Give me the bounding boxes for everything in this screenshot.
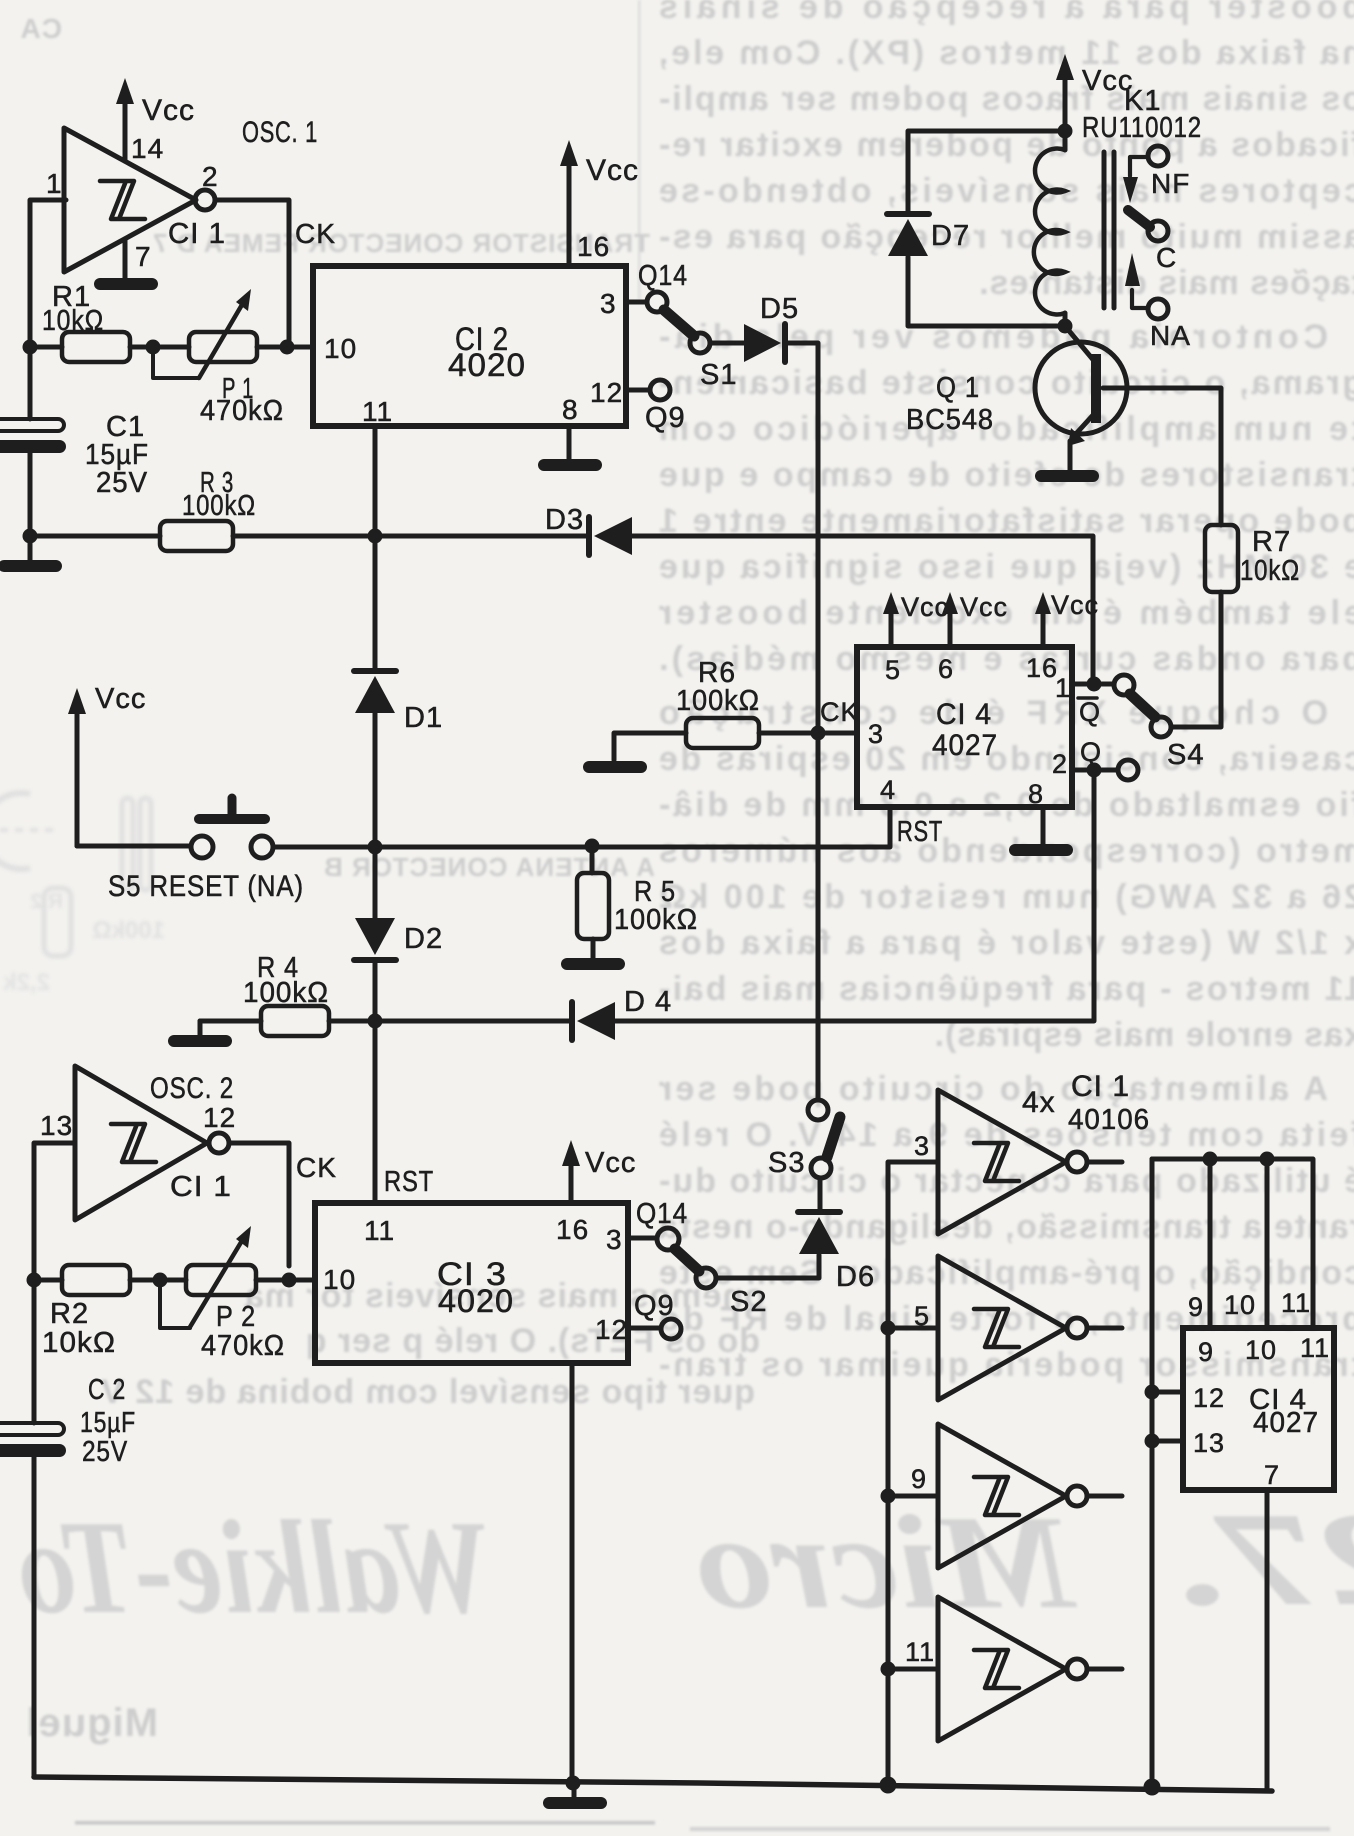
- node Q-bar CI4 pin 1: [1072, 675, 1134, 727]
- svg-text:CK: CK: [296, 1152, 337, 1183]
- node Q9 of CI2 pin 12: [626, 380, 686, 434]
- relay contact C with lever: [1128, 210, 1177, 273]
- power Vcc arrow for S5: [68, 683, 146, 846]
- svg-text:Q: Q: [1079, 697, 1101, 727]
- svg-text:CI 4: CI 4: [936, 698, 992, 731]
- svg-text:8: 8: [1028, 779, 1044, 809]
- switch S4: [1130, 694, 1204, 771]
- svg-text:11: 11: [905, 1637, 935, 1667]
- wire C2 down to bottom bus: [32, 1457, 37, 1777]
- resistor R7: [1205, 525, 1300, 592]
- svg-text:10: 10: [324, 333, 357, 364]
- relay contact NF: [1123, 146, 1190, 203]
- wire bottom ground bus: [34, 1777, 1272, 1791]
- svg-text:10kΩ: 10kΩ: [42, 1327, 116, 1359]
- resistor R4: [243, 952, 329, 1036]
- svg-text:2: 2: [1052, 749, 1068, 779]
- relay K1 RU110012: [1034, 85, 1202, 334]
- switch S2: [675, 1249, 767, 1318]
- IC CI2 4020 binary counter: [313, 231, 626, 427]
- svg-text:ceptores mais sensíveis, obten: ceptores mais sensíveis, obtendo-se: [658, 172, 1354, 210]
- pushbutton S5 RESET (NA): [108, 798, 304, 903]
- wire left bus down to bottom: [1150, 1159, 1155, 1788]
- svg-text:16: 16: [556, 1214, 589, 1245]
- svg-text:rante a transmissão, desligand: rante a transmissão, desligando-o nesta: [658, 1208, 1354, 1246]
- svg-text:D1: D1: [404, 702, 443, 734]
- svg-text:x 1/2 W (este valor é para a f: x 1/2 W (este valor é para a faixa dos: [658, 924, 1354, 962]
- power Vcc arrow OSC1 pin 14: [116, 78, 195, 161]
- svg-text:CI 1: CI 1: [170, 1171, 232, 1203]
- svg-text:470kΩ: 470kΩ: [200, 395, 284, 427]
- capacitor C1: [0, 411, 149, 499]
- svg-text:25V: 25V: [82, 1436, 128, 1468]
- svg-text:12: 12: [595, 1314, 628, 1345]
- wire ground rail to R3: [30, 534, 160, 539]
- svg-text:100kΩ: 100kΩ: [676, 685, 760, 717]
- wire R6/CK to CI4 pin 3: [759, 697, 860, 741]
- svg-text:13: 13: [40, 1110, 73, 1141]
- ground below C1: [0, 536, 62, 572]
- inverter bank labels 4x CI1 40106: [1022, 1070, 1150, 1136]
- diode D3: [545, 504, 632, 555]
- svg-text:14: 14: [131, 133, 164, 164]
- svg-text:1: 1: [1055, 673, 1071, 703]
- diode D1: [354, 671, 443, 734]
- svg-text:D5: D5: [760, 293, 799, 325]
- svg-text:NA: NA: [1150, 320, 1191, 351]
- inverter gate 5: [881, 1256, 1123, 1400]
- svg-text:D2: D2: [404, 923, 443, 955]
- svg-text:12: 12: [1193, 1383, 1225, 1413]
- power Vcc arrow relay: [1056, 54, 1133, 131]
- svg-text:na faixa dos 11 metros (PX). C: na faixa dos 11 metros (PX). Com ele,: [658, 34, 1354, 72]
- svg-text:assim muito melhor recepção pa: assim muito melhor recepção para es-: [658, 218, 1354, 256]
- node Q14 of CI2 pin 3: [626, 260, 688, 312]
- svg-text:9: 9: [911, 1464, 927, 1494]
- resistor R6: [676, 657, 760, 748]
- diode D5: [744, 293, 799, 362]
- svg-text:10: 10: [1245, 1335, 1277, 1365]
- svg-text:S4: S4: [1167, 739, 1204, 771]
- node Q9 of CI3 pin 12: [628, 1290, 681, 1339]
- power Vcc arrow CI3 pin 16: [562, 1140, 636, 1203]
- wire D4 to CI4 pin 2 (Q): [615, 770, 1094, 1021]
- svg-text:TRANSISTOR CONECTOR FEMEA D 7: TRANSISTOR CONECTOR FEMEA D 7: [152, 228, 650, 258]
- svg-text:CA: CA: [20, 13, 62, 44]
- svg-text:Q: Q: [1080, 737, 1102, 767]
- IC CI4 4027 (second half): [1183, 1328, 1334, 1490]
- power Vcc arrows CI4 pins 5,6,16: [883, 590, 1099, 647]
- wire D1 to S5 row: [373, 713, 378, 928]
- svg-text:4x: 4x: [1022, 1086, 1056, 1119]
- svg-text:6: 6: [938, 654, 954, 684]
- wire pin 7 to bottom bus: [1265, 1490, 1270, 1791]
- svg-text:Q14: Q14: [636, 1198, 688, 1230]
- svg-text:Q9: Q9: [634, 1290, 675, 1322]
- svg-text:15µF: 15µF: [80, 1407, 136, 1439]
- wire R3 to D3: [233, 534, 589, 539]
- ground CI2 pin 8: [538, 426, 602, 471]
- svg-text:12: 12: [590, 377, 623, 408]
- node Q14 of CI3 pin 3: [628, 1198, 688, 1250]
- svg-text:4027: 4027: [1253, 1407, 1319, 1439]
- svg-text:7: 7: [1264, 1460, 1280, 1490]
- svg-text:11: 11: [1281, 1288, 1311, 1318]
- svg-text:11: 11: [1300, 1333, 1330, 1363]
- wire pin1 feedback to left rail: [30, 200, 66, 419]
- svg-text:CI 1: CI 1: [168, 218, 226, 250]
- svg-text:Vcc: Vcc: [142, 94, 195, 127]
- svg-text:D 4: D 4: [624, 986, 672, 1018]
- svg-text:11 metros - para freqüências m: 11 metros - para freqüências mais bai-: [658, 970, 1354, 1008]
- node R1 row junction: [23, 340, 38, 355]
- svg-text:25V: 25V: [96, 467, 148, 499]
- svg-text:10kΩ: 10kΩ: [1240, 555, 1300, 587]
- wire R1 to P1: [130, 345, 189, 350]
- wire left rail to R1: [30, 345, 62, 350]
- svg-text:Vcc: Vcc: [95, 683, 146, 715]
- svg-text:CK: CK: [820, 697, 860, 727]
- svg-text:metro (correspondendo aos núme: metro (correspondendo aos números: [658, 832, 1354, 870]
- svg-text:Miguel: Miguel: [25, 1701, 158, 1745]
- node Q CI4 pin 2: [1072, 737, 1138, 780]
- svg-text:RST: RST: [384, 1166, 434, 1198]
- switch S3: [768, 1100, 840, 1179]
- resistor R1: [42, 281, 130, 362]
- wire OSC2 output CK down to pin10 row: [229, 1143, 289, 1266]
- svg-text:RU110012: RU110012: [1082, 112, 1202, 144]
- svg-text:CK: CK: [295, 218, 336, 249]
- svg-text:9: 9: [1188, 1292, 1204, 1322]
- svg-text:3: 3: [868, 719, 884, 749]
- svg-text:5: 5: [914, 1301, 930, 1331]
- node R2 row left junction: [27, 1273, 42, 1288]
- svg-text:100kΩ: 100kΩ: [182, 490, 256, 522]
- wire R7 to Q1 base: [1103, 388, 1221, 525]
- svg-text:Vcc: Vcc: [585, 1147, 636, 1179]
- wire CI3 pin 8 to bottom bus: [570, 1363, 575, 1783]
- svg-text:12: 12: [203, 1102, 236, 1133]
- wire Vcc to S5: [77, 844, 191, 849]
- svg-text:4020: 4020: [448, 347, 526, 383]
- svg-text:1: 1: [46, 168, 63, 199]
- pin labels outside bus: [1188, 1288, 1311, 1322]
- wire CK from OSC1 output to pin10 node: [215, 200, 289, 347]
- svg-text:C: C: [1156, 242, 1177, 273]
- resistor R2: [42, 1265, 130, 1359]
- svg-text:26 a 32 AWG) num resistor de 1: 26 a 32 AWG) num resistor de 100 kΩ: [658, 878, 1354, 916]
- svg-text:16: 16: [577, 231, 610, 262]
- resistor R5: [577, 839, 698, 940]
- svg-text:A alimentação do circuito pode: A alimentação do circuito pode ser: [658, 1070, 1328, 1108]
- svg-text:4020: 4020: [438, 1283, 514, 1319]
- wire D2 to R4 row and CI3 pin 11: [373, 960, 378, 1203]
- svg-text:caseira, consistindo em 20 esp: caseira, consistindo em 20 espiras de: [658, 740, 1354, 778]
- ground left of R4: [168, 1021, 232, 1047]
- relay contact NA: [1125, 253, 1191, 351]
- svg-text:S2: S2: [730, 1286, 767, 1318]
- wire pin 9 drop: [1203, 1152, 1218, 1329]
- resistor R3: [160, 467, 256, 551]
- svg-text:S1: S1: [700, 359, 737, 391]
- wire inverter input bus: [888, 1162, 938, 1786]
- wire S5 to CI4 pin 4 (RST row): [273, 807, 890, 847]
- wire D3 to CI4 pin1 vertical: [632, 536, 1093, 684]
- wire pin 10 drop: [1260, 1152, 1275, 1329]
- wire pin 13 stub: [1145, 1434, 1184, 1449]
- svg-text:D3: D3: [545, 504, 584, 536]
- svg-text:5: 5: [885, 655, 901, 685]
- wire ground to R4: [200, 1019, 261, 1024]
- svg-text:10: 10: [323, 1264, 356, 1295]
- svg-text:13: 13: [1193, 1428, 1225, 1458]
- svg-text:16: 16: [1026, 653, 1058, 683]
- svg-text:S5 RESET (NA): S5 RESET (NA): [108, 870, 304, 903]
- svg-text:NF: NF: [1151, 168, 1190, 199]
- svg-text:BC548: BC548: [906, 404, 994, 436]
- diode D7: [887, 131, 1065, 326]
- svg-text:Vcc: Vcc: [960, 592, 1008, 622]
- svg-text:os sinais mais fracos podem se: os sinais mais fracos podem ser ampli-: [658, 80, 1354, 118]
- transistor Q1 BC548: [906, 326, 1127, 470]
- svg-text:D6: D6: [836, 1261, 875, 1293]
- svg-text:8: 8: [562, 394, 579, 425]
- op-amp/inverter CI1 gate a (OSC.1): [46, 116, 318, 272]
- svg-text:te num amplificador aperiódico: te num amplificador aperiódico com: [658, 410, 1354, 448]
- svg-text:OSC. 1: OSC. 1: [242, 116, 318, 149]
- wire P1 to CI2 pin 10: [257, 345, 313, 350]
- svg-text:do os FETs). O relé p ser: do os FETs). O relé p ser q: [305, 1322, 760, 1360]
- IC CI3 4020 binary counter: [315, 1203, 628, 1363]
- svg-text:quer tipo sensível com bobina: quer tipo sensível com bobina de 12 V: [100, 1373, 755, 1411]
- svg-text:CI 1: CI 1: [1071, 1070, 1130, 1103]
- svg-text:OSC. 2: OSC. 2: [150, 1072, 234, 1105]
- potentiometer P1: [153, 289, 284, 427]
- capacitor C2: [0, 1280, 136, 1468]
- svg-text:R7: R7: [1252, 526, 1291, 558]
- svg-text:3: 3: [914, 1131, 930, 1161]
- diode D6: [716, 1178, 875, 1293]
- power Vcc arrow CI2 pin 16: [560, 140, 639, 266]
- svg-text:R2: R2: [50, 1298, 89, 1330]
- svg-text:2,2k: 2,2k: [3, 969, 50, 996]
- potentiometer P2: [160, 1226, 285, 1362]
- svg-text:3: 3: [600, 288, 617, 319]
- svg-text:11: 11: [364, 1215, 395, 1246]
- svg-text:2: 2: [202, 161, 219, 192]
- ground below R5: [561, 939, 625, 970]
- inverter gate 3: [914, 1090, 1122, 1234]
- svg-text:Vcc: Vcc: [586, 154, 639, 187]
- svg-text:RST: RST: [897, 816, 943, 848]
- IC CI4 4027 flip-flop: [857, 647, 1072, 809]
- svg-text:Vcc: Vcc: [901, 592, 949, 622]
- svg-text:470kΩ: 470kΩ: [201, 1330, 285, 1362]
- svg-text:Walkie-To: Walkie-To: [18, 1493, 492, 1641]
- wire P2 to CI3 pin 10: [256, 1278, 315, 1283]
- diode D4: [572, 986, 672, 1040]
- svg-text:R 2: R 2: [30, 890, 63, 913]
- wire R4 to D4: [329, 1019, 572, 1024]
- ground on bottom bus: [543, 1783, 607, 1809]
- svg-text:100kΩ: 100kΩ: [614, 904, 698, 936]
- svg-text:C 2: C 2: [88, 1374, 126, 1406]
- wire OSC2 input to left rail: [34, 1143, 75, 1266]
- diode D2: [354, 918, 443, 960]
- svg-text:40106: 40106: [1068, 1104, 1150, 1136]
- ground Q1 emitter: [1035, 470, 1099, 482]
- svg-text:D7: D7: [931, 220, 970, 252]
- svg-text:10: 10: [1224, 1290, 1256, 1320]
- svg-text:Vcc: Vcc: [1051, 590, 1099, 620]
- wire pin 12 stub: [1145, 1385, 1184, 1400]
- wire S4 to R7: [1171, 592, 1221, 727]
- inverter gate 9: [881, 1424, 1123, 1568]
- svg-text:3: 3: [606, 1224, 623, 1255]
- svg-text:7: 7: [135, 241, 152, 272]
- svg-text:Q9: Q9: [645, 402, 686, 434]
- svg-text:Q 1: Q 1: [936, 372, 980, 404]
- switch S1: [664, 310, 737, 391]
- svg-text:100kΩ: 100kΩ: [92, 917, 165, 944]
- svg-text:100kΩ: 100kΩ: [243, 977, 329, 1009]
- wire R2 to P2: [130, 1278, 186, 1283]
- wire S1 to D5: [710, 341, 744, 346]
- wire D5 down the long vertical to S3: [785, 343, 818, 1100]
- svg-text:4: 4: [880, 775, 896, 805]
- svg-text:9: 9: [1198, 1337, 1214, 1367]
- ground OSC1 pin 7: [94, 239, 158, 290]
- inverter gate 11: [881, 1597, 1123, 1741]
- svg-text:P 2: P 2: [216, 1301, 256, 1333]
- svg-text:Q14: Q14: [638, 260, 688, 292]
- ground left of R6: [583, 733, 686, 773]
- inverter CI1 gate b (OSC.2): [40, 1066, 236, 1220]
- svg-text:10kΩ: 10kΩ: [42, 305, 104, 337]
- svg-text:transistores de efeito de camp: transistores de efeito de campo e que: [658, 456, 1354, 494]
- svg-text:27.: 27.: [1170, 1485, 1354, 1633]
- wire CI2 pin 11 down: [373, 426, 378, 668]
- svg-text:S3: S3: [768, 1147, 805, 1179]
- wire C1 to ground rail: [28, 453, 33, 536]
- ground CI4 pin 8: [1009, 807, 1073, 856]
- svg-text:grama, o circuito consiste bas: grama, o circuito consiste basicamen-: [658, 364, 1354, 402]
- wire right bus top: [1152, 1159, 1313, 1328]
- svg-text:4027: 4027: [932, 729, 998, 762]
- svg-text:11: 11: [362, 396, 393, 427]
